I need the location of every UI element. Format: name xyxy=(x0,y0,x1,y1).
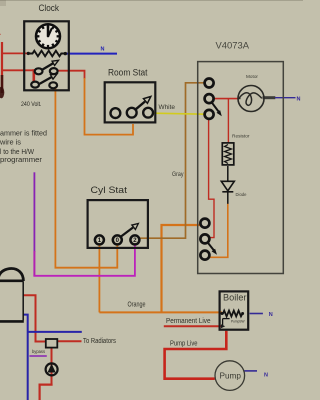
svg-text:White: White xyxy=(159,104,176,111)
svg-text:N: N xyxy=(264,372,268,378)
svg-text:Boiler: Boiler xyxy=(223,293,247,303)
svg-text:wire is: wire is xyxy=(0,138,21,147)
svg-text:Cyl Stat: Cyl Stat xyxy=(91,185,128,196)
svg-text:Pump Live: Pump Live xyxy=(170,341,198,348)
svg-text:Permanent Live: Permanent Live xyxy=(166,318,211,325)
svg-text:To Radiators: To Radiators xyxy=(83,338,116,345)
svg-text:Diode: Diode xyxy=(236,192,247,198)
svg-text:bypass: bypass xyxy=(32,349,46,354)
svg-text:PumpSW: PumpSW xyxy=(231,319,245,324)
svg-text:Clock: Clock xyxy=(39,3,60,13)
svg-text:programmer: programmer xyxy=(0,155,43,164)
svg-text:ammer is fitted: ammer is fitted xyxy=(0,128,47,137)
svg-text:V4073A: V4073A xyxy=(216,40,250,51)
svg-text:Gray: Gray xyxy=(172,171,184,178)
svg-text:Pump: Pump xyxy=(220,370,242,380)
svg-text:N: N xyxy=(101,47,105,53)
svg-text:Motor: Motor xyxy=(246,74,259,79)
svg-text:N: N xyxy=(297,97,301,103)
svg-text:Orange: Orange xyxy=(128,302,146,309)
svg-text:N: N xyxy=(269,312,273,318)
svg-text:Room Stat: Room Stat xyxy=(108,68,148,78)
svg-text:240 Volt.: 240 Volt. xyxy=(21,101,42,108)
svg-text:Resistor: Resistor xyxy=(232,133,250,139)
